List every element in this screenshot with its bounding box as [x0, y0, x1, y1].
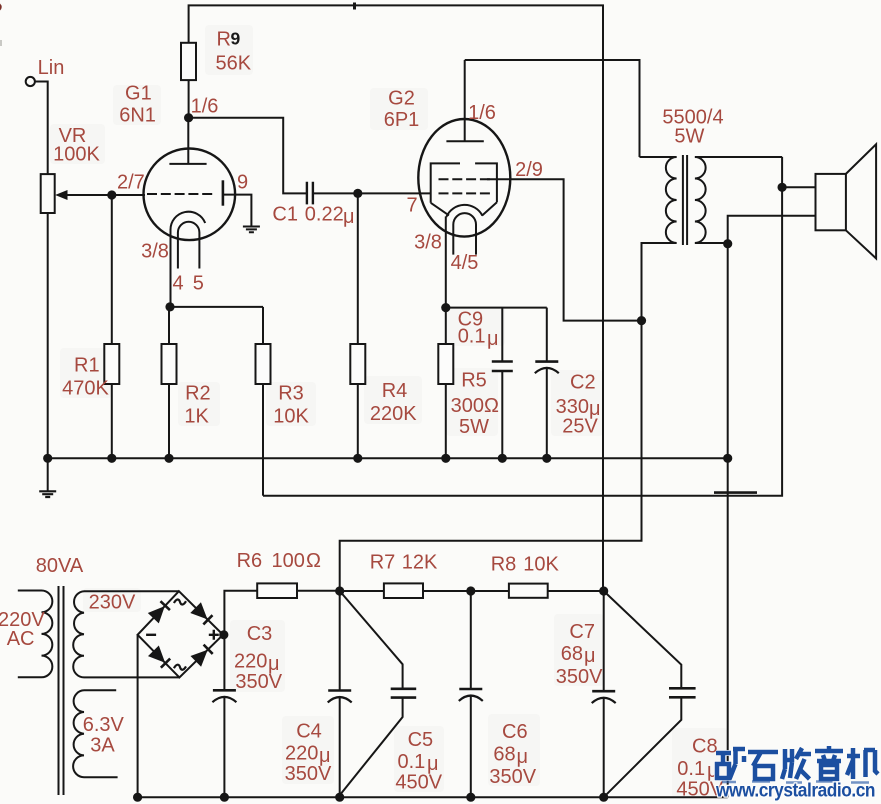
- svg-text:350V: 350V: [556, 666, 603, 688]
- svg-text:μ: μ: [584, 645, 596, 667]
- svg-text:6.3V: 6.3V: [83, 714, 125, 736]
- resistor R6 100ohm: [257, 583, 297, 598]
- svg-text:68: 68: [561, 643, 583, 665]
- svg-text:R1: R1: [74, 355, 100, 377]
- svg-text:C7: C7: [569, 621, 595, 643]
- svg-text:6N1: 6N1: [119, 104, 156, 126]
- wire R3 bottom to NFB line: [262, 384, 264, 496]
- resistor R3 10K: [256, 344, 271, 384]
- svg-text:10K: 10K: [273, 406, 309, 428]
- watermark char shou: [782, 748, 811, 779]
- node 2/7 junction dot: [107, 190, 116, 199]
- G2 cathode: [446, 205, 482, 217]
- bridge plus junction dot: [219, 630, 228, 639]
- wire R2 top lead: [168, 307, 170, 344]
- svg-text:C6: C6: [502, 721, 528, 743]
- node 3/8 junction dot: [165, 302, 174, 311]
- G1 plate: [169, 163, 206, 165]
- svg-text:2/9: 2/9: [515, 159, 543, 181]
- svg-text:C8: C8: [692, 735, 718, 757]
- svg-text:4: 4: [172, 273, 183, 295]
- T1 heater 6.3V winding: [84, 690, 118, 777]
- output transformer primary winding: [666, 157, 677, 243]
- ground symbol (main): [47, 458, 49, 491]
- mid ground bus: [48, 457, 728, 459]
- C6 plates (electrolytic): [459, 688, 482, 691]
- G1 cathode: [170, 212, 205, 230]
- svg-text:R8: R8: [491, 554, 517, 576]
- svg-text:Ω: Ω: [306, 550, 321, 572]
- node C1/R4 junction dot: [353, 189, 362, 198]
- svg-text:470K: 470K: [62, 378, 109, 400]
- OPT primary bottom lead: [642, 243, 677, 321]
- svg-text:5W: 5W: [459, 416, 489, 438]
- C7 bottom lead: [603, 698, 605, 797]
- svg-text:450V: 450V: [395, 772, 442, 794]
- wire R2 bottom lead: [168, 384, 170, 458]
- svg-text:9: 9: [231, 29, 241, 49]
- OPT core: [683, 155, 687, 245]
- OPT secondary bottom lead: [695, 242, 728, 244]
- svg-text:R2: R2: [185, 383, 211, 405]
- resistor R2 1K: [162, 344, 177, 384]
- svg-text:R7: R7: [370, 552, 396, 574]
- tube G1 envelope: [144, 149, 236, 241]
- wire G2 cathode pin 3/8 down: [445, 217, 447, 308]
- G2 heater (pins 4,5): [453, 213, 476, 254]
- G2 screen box: [431, 163, 497, 215]
- wire node 1/6 to C1: [189, 118, 307, 194]
- wire node 2/7 to G1 grid (solid part): [112, 194, 145, 196]
- wire R7 to node2: [423, 590, 471, 592]
- secondary bottom junction dot: [723, 239, 732, 248]
- svg-text:4/5: 4/5: [451, 252, 479, 274]
- wire R1 bottom lead: [111, 384, 113, 458]
- watermark ghost marks: [722, 782, 869, 783]
- bus junction dots: [43, 454, 52, 463]
- screen supply dot at 2/9 rail: [637, 316, 646, 325]
- speaker cone: [846, 144, 876, 258]
- wire bridge minus to ground: [137, 635, 139, 797]
- input jack Lin: [26, 77, 35, 86]
- NFB wire to speaker tap: [263, 157, 782, 496]
- background patches: [50, 25, 728, 798]
- svg-text:3/8: 3/8: [141, 241, 169, 263]
- watermark char shi: [748, 752, 778, 779]
- watermark char ji: [847, 748, 878, 779]
- node3 junction dot: [599, 586, 608, 595]
- svg-text:0.1: 0.1: [458, 326, 486, 348]
- wire R4 top lead: [357, 193, 359, 344]
- resistor R8 10K: [509, 584, 548, 598]
- wire R5 bottom lead: [445, 384, 447, 458]
- diode D1 (top-left edge): [149, 601, 170, 623]
- svg-text:0.1: 0.1: [398, 751, 426, 773]
- wire OPT primary top lead: [640, 156, 677, 158]
- svg-text:100: 100: [272, 550, 305, 572]
- tube G2 envelope: [418, 119, 510, 237]
- edge artifact red fragments: [0, 4, 2, 11]
- wire G1 cathode pin 3/8 down: [170, 229, 172, 307]
- svg-text:2/7: 2/7: [117, 172, 145, 194]
- svg-text:Ω: Ω: [484, 395, 499, 417]
- node 1/6 junction dot: [184, 113, 193, 122]
- C7 plates (electrolytic): [592, 690, 615, 693]
- wire to speaker +: [782, 186, 815, 188]
- svg-text:68: 68: [493, 744, 515, 766]
- capacitor C3 220u (electrolytic): [213, 689, 236, 692]
- resistor R5 300ohm: [438, 344, 453, 384]
- svg-text:R5: R5: [461, 369, 487, 391]
- svg-text:100K: 100K: [53, 144, 100, 166]
- svg-text:R: R: [217, 28, 231, 50]
- svg-text:1/6: 1/6: [191, 96, 219, 118]
- AC tilde bottom: [174, 665, 186, 670]
- capacitor C2 330u top lead: [546, 308, 548, 361]
- svg-text:μ: μ: [343, 206, 355, 228]
- wire VR bottom to ground bus: [47, 213, 49, 458]
- C6 bottom lead: [470, 696, 472, 797]
- svg-text:R4: R4: [382, 380, 408, 402]
- C8 plates: [669, 688, 696, 697]
- svg-text:230V: 230V: [89, 592, 136, 614]
- svg-text:330: 330: [556, 396, 589, 418]
- VR wiper arrow: [66, 194, 112, 196]
- wire G2 plate to OPT primary top: [465, 60, 640, 157]
- svg-text:C1: C1: [272, 204, 298, 226]
- capacitor C9 plates: [492, 362, 513, 372]
- capacitor C9 0.1u leads: [501, 308, 503, 459]
- wire node1 to R7: [340, 590, 384, 592]
- svg-text:350V: 350V: [489, 766, 536, 788]
- wire Lin to VR top: [35, 82, 48, 175]
- wire node2 to R8: [471, 590, 509, 592]
- svg-text:220K: 220K: [370, 403, 417, 425]
- svg-text:5W: 5W: [674, 126, 704, 148]
- svg-text:5: 5: [193, 273, 204, 295]
- svg-text:6P1: 6P1: [384, 109, 420, 131]
- wire pin 9 to ground: [224, 195, 251, 226]
- wire to speaker -: [728, 216, 816, 244]
- wire C1 to G2 grid: [313, 192, 430, 194]
- svg-text:220: 220: [234, 651, 267, 673]
- svg-text:1K: 1K: [184, 406, 209, 428]
- WATERMARK: [715, 746, 878, 802]
- capacitor C5 0.1u leads: [340, 591, 403, 795]
- resistor R7 12K: [384, 583, 423, 598]
- G2 control grid (dashed): [439, 192, 491, 194]
- top rail tick artifact: [353, 3, 356, 10]
- watermark char kuang: [716, 749, 745, 779]
- wire cathode node to R3 top: [170, 306, 263, 308]
- NFB artifact dash: [714, 491, 757, 494]
- G1 grid (dashed): [147, 193, 215, 195]
- svg-text:R3: R3: [278, 383, 304, 405]
- wire R6 to node1: [297, 590, 340, 592]
- capacitor C1 0.22u: [307, 182, 313, 205]
- C2 bottom lead: [546, 368, 548, 458]
- C2 plates (electrolytic): [535, 360, 558, 363]
- wire R5 body top: [445, 308, 447, 344]
- diode D3 (bottom-left edge): [149, 646, 170, 668]
- wire R9 top to B+ top rail: [189, 5, 603, 591]
- svg-text:10K: 10K: [523, 554, 559, 576]
- svg-text:Lin: Lin: [38, 57, 65, 79]
- resistor R4 220K: [350, 344, 365, 384]
- resistor R9 56K: [181, 43, 196, 80]
- potentiometer VR 100K body: [41, 174, 55, 213]
- G2 plate lead: [464, 60, 466, 141]
- svg-text:μ: μ: [487, 328, 499, 350]
- wire screen rail down to R6/R7 node: [340, 321, 642, 591]
- svg-text:9: 9: [237, 172, 248, 194]
- node2 junction dot: [466, 586, 475, 595]
- ground symbol (pin 9): [243, 227, 260, 233]
- svg-text:AC: AC: [7, 628, 35, 650]
- wire R4 bottom lead: [357, 384, 359, 458]
- C5 plates: [391, 689, 417, 698]
- G1 shield bar pin 9: [222, 180, 225, 205]
- diode D2 (top-right edge): [191, 603, 213, 624]
- svg-text:0.1: 0.1: [677, 758, 705, 780]
- C4 bottom lead: [339, 698, 341, 798]
- C4 plates (electrolytic): [328, 689, 351, 692]
- svg-text:C5: C5: [408, 729, 434, 751]
- wire secondary bottom to grounds: [727, 244, 729, 798]
- wire R3 top lead: [262, 307, 264, 344]
- svg-text:350V: 350V: [285, 763, 332, 785]
- speaker + tap dot: [778, 183, 787, 192]
- wire screen 2/9 out: [487, 179, 642, 320]
- svg-text:25V: 25V: [562, 416, 598, 438]
- T1 primary 220V winding: [18, 591, 42, 678]
- svg-text:G2: G2: [388, 88, 415, 110]
- svg-text:C3: C3: [247, 623, 273, 645]
- capacitor C4 220u lead: [339, 591, 341, 691]
- wire bridge plus up to R6 and down to C3: [224, 591, 257, 691]
- svg-text:56K: 56K: [216, 53, 252, 75]
- bridge rectifier diamond: [138, 591, 223, 677]
- svg-text:C4: C4: [296, 720, 322, 742]
- power transformer core: [59, 586, 64, 795]
- bottom ground bus: [138, 796, 728, 798]
- svg-text:0.22: 0.22: [305, 204, 344, 226]
- svg-text:300: 300: [451, 395, 484, 417]
- G1 plate lead to node 1/6: [187, 118, 189, 164]
- svg-text:12K: 12K: [402, 552, 438, 574]
- svg-text:G1: G1: [125, 83, 152, 105]
- diode D4 (bottom-right edge): [191, 644, 213, 665]
- speaker body: [816, 174, 846, 230]
- svg-text:μ: μ: [517, 746, 529, 768]
- svg-text:220: 220: [285, 742, 318, 764]
- svg-text:3A: 3A: [90, 735, 115, 757]
- svg-text:R6: R6: [237, 550, 263, 572]
- G1 heater (pins 4,5): [178, 222, 200, 269]
- AC tilde top: [174, 599, 186, 604]
- OPT secondary winding: [695, 157, 706, 243]
- G2 plate: [446, 140, 483, 142]
- svg-text:1/6: 1/6: [468, 102, 496, 124]
- svg-text:7: 7: [406, 194, 417, 216]
- T1 secondary 230V winding: [84, 591, 179, 677]
- node G2 cathode junction dot: [441, 303, 450, 312]
- minus sign: [146, 634, 156, 636]
- resistor R1 470K: [104, 344, 119, 384]
- wire cathode node to C9/C2: [446, 307, 547, 309]
- node1 junction dot: [335, 586, 344, 595]
- wire R9 bottom to node 1/6: [188, 80, 190, 118]
- G2 screen grid (dashed): [439, 178, 491, 180]
- capacitor C8 0.1u leads: [604, 591, 682, 797]
- capacitor C7 68u lead: [603, 591, 605, 691]
- capacitor C6 68u lead: [470, 591, 472, 689]
- svg-text:C2: C2: [570, 372, 596, 394]
- svg-text:80VA: 80VA: [36, 555, 84, 577]
- watermark char yin: [815, 746, 843, 779]
- wire R1 top lead: [111, 195, 113, 344]
- bottom bus junction dots: [133, 793, 142, 802]
- svg-text:350V: 350V: [235, 671, 282, 693]
- plus sign: [209, 630, 219, 640]
- wire R8 to node3: [548, 590, 604, 592]
- svg-text:3/8: 3/8: [414, 232, 442, 254]
- svg-text:www.crystalradio.cn: www.crystalradio.cn: [715, 781, 875, 802]
- OPT secondary top lead: [695, 156, 782, 158]
